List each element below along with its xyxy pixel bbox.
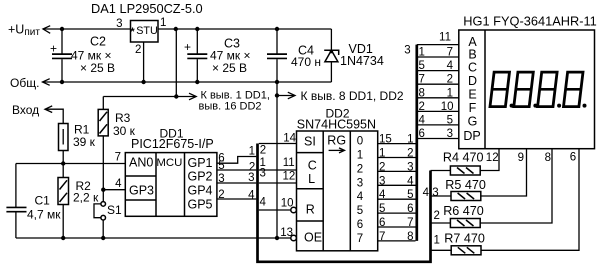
capacitor C3 47uF 25V xyxy=(184,29,251,82)
wire input to R1 xyxy=(45,109,63,123)
svg-text:8: 8 xyxy=(419,87,425,99)
wire bottom ground rail xyxy=(16,237,291,239)
svg-text:4: 4 xyxy=(447,60,454,72)
svg-text:6: 6 xyxy=(419,128,425,140)
wire digit bus to R5 xyxy=(431,195,452,197)
wire segment D to HG1 pin2 xyxy=(418,83,459,85)
svg-text:1: 1 xyxy=(379,148,385,160)
microcontroller DD1 PIC12F675-I/P xyxy=(115,127,225,217)
node junction C4 ground rail xyxy=(275,80,279,84)
svg-text:1: 1 xyxy=(357,150,363,162)
digit bus wire number labels xyxy=(423,187,440,247)
node junction C2 ground rail xyxy=(60,80,64,84)
svg-text:3: 3 xyxy=(248,172,254,184)
wire R3 bottom to GP3 and S1 xyxy=(102,136,104,202)
svg-text:3: 3 xyxy=(432,187,438,199)
svg-text:1: 1 xyxy=(407,134,413,146)
svg-text:6: 6 xyxy=(357,219,363,231)
wire +5V top rail xyxy=(43,28,131,30)
svg-text:C: C xyxy=(468,61,477,75)
display digit 2 xyxy=(514,72,538,108)
svg-text:2: 2 xyxy=(357,163,363,175)
node junction C2 top rail xyxy=(60,27,64,31)
capacitor C4 470n xyxy=(267,29,321,82)
svg-text:8: 8 xyxy=(407,231,413,243)
wire digit bus to R6 xyxy=(431,222,451,224)
wire top rail right of DA1 xyxy=(158,28,331,30)
wire segment E to HG1 pin1 xyxy=(418,97,459,99)
svg-text:0: 0 xyxy=(357,136,363,148)
svg-text:5: 5 xyxy=(379,203,385,215)
svg-text:*: * xyxy=(130,26,135,38)
svg-text:R7 470: R7 470 xyxy=(444,232,485,246)
svg-text:F: F xyxy=(469,101,477,115)
node +Upit input terminal xyxy=(8,23,50,39)
svg-text:GP4: GP4 xyxy=(188,184,213,198)
wire segment G to HG1 pin5 xyxy=(418,124,459,126)
capacitor C2 47uF 25V xyxy=(50,29,115,82)
svg-text:Общ.: Общ. xyxy=(10,76,39,90)
svg-text:6: 6 xyxy=(570,152,576,164)
svg-text:R3: R3 xyxy=(115,111,131,125)
svg-text:11: 11 xyxy=(439,32,451,44)
wire R6 to HG1 pin8 xyxy=(480,149,552,223)
svg-text:2: 2 xyxy=(379,161,385,173)
svg-text:12: 12 xyxy=(283,171,296,183)
svg-text:1: 1 xyxy=(249,146,255,158)
svg-text:R6 470: R6 470 xyxy=(443,204,484,218)
segment bus wire number labels 1-8 xyxy=(407,134,414,243)
svg-text:7: 7 xyxy=(357,233,363,245)
svg-text:R: R xyxy=(306,203,315,217)
wire GP1 to bus entry 1 xyxy=(217,157,256,164)
svg-text:3: 3 xyxy=(404,44,410,56)
svg-text:2: 2 xyxy=(434,210,440,222)
svg-text:R5 470: R5 470 xyxy=(445,178,486,192)
wire segment DP to HG1 pin3 xyxy=(418,138,459,140)
voltage regulator DA1 LP2950CZ-5.0 xyxy=(91,1,203,56)
wire bus to DD2 L pin12 xyxy=(259,182,297,184)
svg-text:К выв. 8 DD1, DD2: К выв. 8 DD1, DD2 xyxy=(301,89,404,103)
svg-text:E: E xyxy=(468,88,476,102)
svg-text:10: 10 xyxy=(281,198,294,210)
svg-text:5: 5 xyxy=(419,60,425,72)
node junction R1 R2 AN0 xyxy=(61,161,65,165)
svg-text:13: 13 xyxy=(280,227,293,239)
resistor R6 470 xyxy=(443,204,484,228)
svg-text:× 25 В: × 25 В xyxy=(212,61,247,75)
svg-text:15: 15 xyxy=(379,134,392,146)
svg-text:4,7 мк: 4,7 мк xyxy=(27,208,61,222)
wire GP5 to bus entry 4 xyxy=(217,198,256,200)
svg-text:39 к: 39 к xyxy=(73,135,96,149)
zener diode VD1 1N4734 xyxy=(324,29,384,82)
wire ground rail xyxy=(43,81,332,83)
segment wire number labels at bus xyxy=(419,47,426,141)
bus exit labels 2 1 3 4 xyxy=(260,145,267,209)
svg-text:2: 2 xyxy=(447,74,453,86)
svg-text:2: 2 xyxy=(407,148,413,160)
wire DD2 out3 pin3 segment wire 4 xyxy=(378,184,416,186)
svg-text:выв. 16 DD2: выв. 16 DD2 xyxy=(199,101,262,113)
wire ground to K vyv.8 arrow and DD2 OE xyxy=(277,82,295,238)
svg-text:1: 1 xyxy=(160,17,166,29)
wire GP3 to R3-S1 node xyxy=(103,189,125,191)
display digit 3 xyxy=(538,72,562,108)
svg-text:3: 3 xyxy=(116,18,122,30)
wire segment C to HG1 pin4 xyxy=(418,70,459,72)
svg-text:3: 3 xyxy=(379,175,385,187)
wire DD2 out4 pin4 segment wire 5 xyxy=(378,198,416,200)
svg-text:9: 9 xyxy=(518,152,524,164)
wire GP4 to bus entry 3 xyxy=(217,182,256,184)
svg-text:GP3: GP3 xyxy=(129,183,154,197)
svg-text:L: L xyxy=(308,172,315,186)
resistor R2 2.2k xyxy=(58,164,99,239)
svg-text:4: 4 xyxy=(407,175,414,187)
node ground terminal Obshch xyxy=(10,76,50,90)
svg-text:7: 7 xyxy=(115,152,121,164)
svg-text:3: 3 xyxy=(407,161,413,173)
node input terminal Vhod xyxy=(12,103,52,117)
bus group segment wires vertical xyxy=(415,45,418,241)
svg-text:2: 2 xyxy=(419,101,425,113)
wire DA1 pin2 to ground xyxy=(143,42,145,82)
resistor R4 470 xyxy=(443,151,484,176)
node junction DA1 pin2 ground rail xyxy=(141,80,145,84)
svg-text:4: 4 xyxy=(423,187,430,199)
svg-text:4: 4 xyxy=(357,191,364,203)
wire digit bus to R7 xyxy=(431,249,452,251)
svg-text:D: D xyxy=(468,74,477,88)
capacitor C1 4.7uF xyxy=(6,164,61,239)
shift register DD2 SN74HC595N xyxy=(280,107,377,251)
svg-text:C1: C1 xyxy=(35,194,51,208)
svg-text:MCU: MCU xyxy=(156,157,182,169)
DD2 output pin number labels xyxy=(379,134,392,243)
svg-text:3: 3 xyxy=(357,177,363,189)
wire DD2 out6 pin6 segment wire 7 xyxy=(378,226,416,228)
svg-text:3: 3 xyxy=(447,128,453,140)
svg-text:R4 470: R4 470 xyxy=(443,151,484,165)
wire R4 to HG1 pin12 xyxy=(480,149,499,171)
svg-text:8: 8 xyxy=(545,152,551,164)
svg-text:3: 3 xyxy=(260,168,266,180)
svg-text:1: 1 xyxy=(419,47,425,59)
svg-text:OE: OE xyxy=(304,231,322,245)
resistor R7 470 xyxy=(444,232,485,255)
wire +5V to K vyv.1 DD1 arrow and R3 top xyxy=(103,29,196,109)
node junction ground arrow xyxy=(275,93,279,97)
svg-text:4: 4 xyxy=(115,178,122,190)
svg-text:G: G xyxy=(468,114,478,128)
resistor R1 39k xyxy=(59,123,96,151)
svg-text:12: 12 xyxy=(486,152,499,164)
svg-text:7: 7 xyxy=(379,231,385,243)
wire bus to DD2 SI pin14 xyxy=(259,143,297,145)
wire bus to DD2 C pin11 xyxy=(259,169,297,171)
svg-text:30 к: 30 к xyxy=(113,124,136,138)
wire segment A to HG1 pin11 xyxy=(417,44,459,46)
svg-text:B: B xyxy=(468,47,476,61)
wire DD2 out2 pin2 segment wire 3 xyxy=(378,170,416,172)
wire DD2 out0 pin15 segment wire 1 xyxy=(378,143,416,145)
svg-text:4: 4 xyxy=(379,189,386,201)
svg-text:14: 14 xyxy=(283,133,296,145)
wire AN0 rail xyxy=(16,163,125,165)
wire digit bus to R4 xyxy=(431,170,451,172)
node junction S1 bottom xyxy=(101,236,105,240)
wire bus to DD2 R pin10 xyxy=(259,209,291,211)
svg-text:1: 1 xyxy=(434,235,440,247)
wire segment F to HG1 pin10 xyxy=(418,110,459,112)
svg-text:5: 5 xyxy=(357,205,363,217)
svg-text:SI: SI xyxy=(304,135,316,149)
svg-text:DA1 LP2950CZ-5.0: DA1 LP2950CZ-5.0 xyxy=(91,1,203,16)
wire R1 bottom to AN0 rail xyxy=(62,151,64,164)
wire DD2 out5 pin5 segment wire 6 xyxy=(378,212,416,214)
svg-text:SN74HC595N: SN74HC595N xyxy=(297,118,376,132)
svg-text:PIC12F675-I/P: PIC12F675-I/P xyxy=(131,137,214,151)
svg-text:2: 2 xyxy=(260,145,266,157)
display digit 1 xyxy=(490,72,514,108)
svg-text:1N4734: 1N4734 xyxy=(340,54,384,68)
svg-text:GP1: GP1 xyxy=(188,156,213,170)
svg-text:DP: DP xyxy=(463,129,480,143)
svg-text:GP2: GP2 xyxy=(188,170,213,184)
svg-text:5: 5 xyxy=(447,114,453,126)
svg-text:4: 4 xyxy=(260,197,267,209)
node junction C3 ground rail xyxy=(195,80,199,84)
svg-text:HG1 FYQ-3641AHR-11: HG1 FYQ-3641AHR-11 xyxy=(463,14,596,29)
svg-text:4: 4 xyxy=(419,114,426,126)
HG1 pin number labels left xyxy=(439,32,454,140)
node junction R2 bottom xyxy=(61,236,65,240)
svg-text:6: 6 xyxy=(379,217,385,229)
bus entry labels 1 2 3 4 xyxy=(248,146,255,202)
svg-text:4: 4 xyxy=(248,189,255,201)
svg-text:C2: C2 xyxy=(90,35,106,49)
node junction C3 top rail xyxy=(195,27,199,31)
wire R7 to HG1 pin6 xyxy=(481,149,579,251)
svg-text:+: + xyxy=(184,40,191,54)
svg-text:2: 2 xyxy=(135,44,141,56)
svg-text:GP5: GP5 xyxy=(188,198,213,212)
svg-text:STU: STU xyxy=(136,25,158,37)
svg-text:6: 6 xyxy=(407,203,413,215)
svg-text:11: 11 xyxy=(283,157,295,169)
svg-text:5: 5 xyxy=(407,189,413,201)
svg-text:2,2 к: 2,2 к xyxy=(73,191,99,205)
svg-text:Вход: Вход xyxy=(12,103,39,117)
node junction GP3 R3 S1 xyxy=(101,188,105,192)
svg-text:470 н: 470 н xyxy=(291,55,321,69)
svg-text:C: C xyxy=(308,158,317,172)
resistor R5 470 xyxy=(445,178,486,201)
display digit 4 xyxy=(564,72,587,108)
svg-text:AN0: AN0 xyxy=(129,156,153,170)
net label K vyv.1 DD1 vyv.16 DD2 xyxy=(199,90,270,113)
push button S1 xyxy=(94,202,122,238)
node junction DA1 out top rail xyxy=(174,27,178,31)
node junction C4 top rail xyxy=(275,27,279,31)
wire DD2 out1 pin1 segment wire 2 xyxy=(378,157,416,159)
resistor R3 30k xyxy=(98,109,135,138)
node junction ground OE xyxy=(275,236,279,240)
node junction +5V arrow xyxy=(174,94,178,98)
LED display HG1 FYQ-3641AHR-11 xyxy=(459,14,597,149)
svg-text:7: 7 xyxy=(447,47,453,59)
wire R5 to HG1 pin9 xyxy=(481,149,527,196)
HG1 bottom pin labels 12 9 8 6 xyxy=(486,152,576,165)
svg-text:1: 1 xyxy=(447,87,453,99)
wire DD2 out7 pin7 segment wire 8 xyxy=(378,240,416,242)
svg-text:RG: RG xyxy=(327,133,346,147)
svg-text:10: 10 xyxy=(441,101,454,113)
svg-text:× 25 В: × 25 В xyxy=(80,61,115,75)
bus group wires 1-4 left vertical and bottom run xyxy=(258,144,431,262)
svg-text:7: 7 xyxy=(407,217,413,229)
svg-text:7: 7 xyxy=(419,74,425,86)
wire segment B to HG1 pin7 xyxy=(418,56,459,58)
wire GP2 to bus entry 2 xyxy=(217,169,256,171)
svg-text:S1: S1 xyxy=(107,203,122,217)
